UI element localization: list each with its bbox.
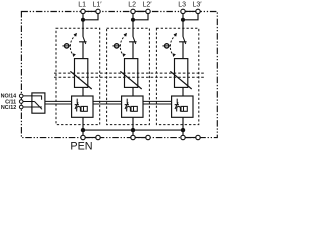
wire to disconnector <box>182 20 184 37</box>
terminal L3 <box>181 9 185 13</box>
terminal C/11 <box>19 100 23 104</box>
device boundary (dash-dot enclosure) <box>21 12 217 138</box>
status indicator box L3 <box>172 96 193 117</box>
terminal PEN 3a <box>181 135 185 139</box>
FM changeover contact box <box>23 96 42 109</box>
svg-text:L3: L3 <box>178 1 186 8</box>
wire L2 drop <box>132 14 134 20</box>
disconnector switch F2 <box>129 37 137 44</box>
SPD module L2 (dashed box) <box>107 28 150 124</box>
node L1 junction <box>81 18 85 22</box>
mechanical linkage (double line to FM contact) <box>45 101 172 104</box>
wire L1 terminal link <box>85 10 96 12</box>
PEN rail <box>83 129 183 131</box>
svg-text:NC/12: NC/12 <box>1 105 16 111</box>
wire varistor to indicator <box>182 87 184 96</box>
disconnector switch F3 <box>179 37 187 44</box>
svg-text:L2: L2 <box>128 1 136 8</box>
terminal PEN 1a <box>81 135 85 139</box>
thermal trip arc <box>170 35 176 55</box>
terminal NC/12 <box>19 105 23 109</box>
thermal element symbol <box>62 45 71 47</box>
indicator symbol <box>175 99 188 112</box>
indicator symbol <box>125 99 138 112</box>
indicator symbol <box>75 99 88 112</box>
wire varistor to indicator <box>132 87 134 96</box>
wire L3&#39; drop <box>183 14 198 20</box>
SPD module L1 (dashed box) <box>56 28 100 124</box>
thermal trip arc <box>70 35 76 55</box>
node PEN junction L1 <box>81 128 85 132</box>
wire indicator to PEN rail <box>182 117 184 135</box>
status indicator box L1 <box>72 96 93 117</box>
terminal L2&#39; <box>146 9 150 13</box>
SPD module L3 (dashed box) <box>156 28 198 124</box>
svg-text:L1′: L1′ <box>92 1 102 8</box>
terminal PEN 1b <box>96 135 100 139</box>
disconnector switch F1 <box>79 37 87 44</box>
svg-text:L1: L1 <box>78 1 86 8</box>
terminal L2 <box>131 9 135 13</box>
terminal PEN 3b <box>196 135 200 139</box>
terminal PEN 2a <box>131 135 135 139</box>
svg-text:L3′: L3′ <box>192 1 202 8</box>
wire to disconnector <box>132 20 134 37</box>
node L3 junction <box>181 18 185 22</box>
wire L1 drop <box>82 14 84 20</box>
wire indicator to PEN rail <box>132 117 134 135</box>
varistor RV1 <box>75 59 88 88</box>
varistor RV2 <box>125 59 138 88</box>
terminal L1&#39; <box>96 9 100 13</box>
varistor RV3 <box>175 59 188 88</box>
wire L3 terminal link <box>185 10 196 12</box>
wire L2 terminal link <box>135 10 146 12</box>
wire to varistor <box>82 42 84 59</box>
node PEN junction L2 <box>131 128 135 132</box>
wire PEN terminal link <box>85 137 96 139</box>
node L2 junction <box>131 18 135 22</box>
wire L1&#39; drop <box>83 14 98 20</box>
thermal element symbol <box>112 45 121 47</box>
wire L3 drop <box>182 14 184 20</box>
thermal element symbol <box>162 45 171 47</box>
wire PEN terminal link <box>135 137 146 139</box>
wire to disconnector <box>82 20 84 37</box>
wire to varistor <box>132 42 134 59</box>
terminal NO/14 <box>19 94 23 98</box>
svg-text:PEN: PEN <box>70 141 92 151</box>
wire L2&#39; drop <box>133 14 148 20</box>
wire varistor to indicator <box>82 87 84 96</box>
svg-text:L2′: L2′ <box>142 1 152 8</box>
terminal PEN 2b <box>146 135 150 139</box>
wire to varistor <box>182 42 184 59</box>
wire indicator to PEN rail <box>82 117 84 135</box>
mechanical linkage (dashed double line to disconnectors) <box>54 73 204 77</box>
wire PEN terminal link <box>185 137 196 139</box>
terminal L1 <box>81 9 85 13</box>
status indicator box L2 <box>122 96 143 117</box>
node PEN junction L3 <box>181 128 185 132</box>
thermal trip arc <box>120 35 126 55</box>
terminal L3&#39; <box>196 9 200 13</box>
